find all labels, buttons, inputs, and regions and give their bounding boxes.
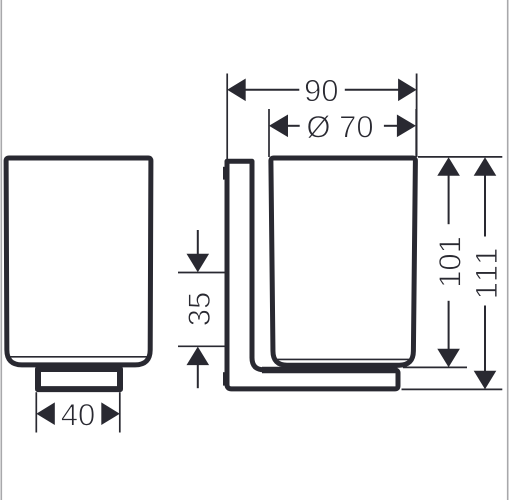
right page border — [507, 0, 509, 500]
dim Ø70 extension line right — [415, 109, 417, 157]
dim 101 arrow down — [437, 349, 460, 368]
dim 111 bottom extension line — [402, 388, 503, 390]
dim 40 arrow left — [36, 402, 55, 425]
dim 111 arrow up — [474, 157, 497, 176]
dim Ø70 arrow right — [397, 115, 416, 138]
dim Ø70 label — [308, 115, 373, 138]
dim 40 arrow right — [101, 402, 120, 425]
dim 40 extension line left — [35, 392, 37, 432]
dim 111 line upper segment — [484, 176, 486, 237]
holder shelf top reinforcement — [262, 367, 398, 374]
dim 101 bottom extension line — [403, 366, 467, 368]
dim Ø70 extension line left — [268, 109, 270, 157]
dim 101 arrow up — [437, 157, 460, 176]
dim Ø70 line left segment — [287, 125, 299, 127]
dim 111 arrow down — [474, 371, 497, 390]
dim Ø70 arrow left — [269, 115, 288, 138]
dim 35 label — [188, 293, 210, 325]
dim 40 label — [62, 404, 95, 426]
top extension line — [418, 156, 502, 158]
wall holder L-bracket — [227, 161, 398, 389]
dim 90 line right segment — [345, 89, 400, 91]
dim 101 label — [439, 238, 461, 286]
dim 90 arrow right — [398, 79, 417, 102]
dim 35 arrow down — [187, 254, 210, 273]
dim 35 lower tail line — [197, 364, 199, 388]
dim 35 bottom extension line — [178, 345, 225, 347]
tumbler side outline — [271, 158, 416, 365]
tumbler front inner bottom line — [10, 356, 148, 358]
dim 101 line lower segment — [448, 301, 450, 349]
tumbler front outline — [6, 158, 151, 365]
dim 35 top extension line — [178, 272, 225, 274]
left page border — [0, 0, 2, 500]
dim 101 line upper segment — [448, 176, 450, 225]
bracket wall pad lower — [223, 372, 225, 385]
dim 35 arrow up — [187, 347, 210, 366]
dim 40 extension line right — [119, 392, 121, 432]
dim 35 upper tail line — [197, 230, 199, 255]
dim Ø70 line right segment — [384, 125, 397, 127]
dim 111 line lower segment — [484, 306, 486, 372]
tumbler side inner bottom line — [274, 358, 411, 360]
dim 90 arrow left — [227, 79, 246, 102]
dim 111 label — [476, 249, 497, 297]
dim 90 extension line right — [416, 74, 418, 158]
bracket wall pad upper — [223, 167, 225, 180]
dim 90 line left segment — [245, 89, 299, 91]
dim 90 extension line left — [226, 74, 228, 161]
tumbler foot — [38, 369, 120, 389]
dim 90 label — [306, 80, 338, 102]
